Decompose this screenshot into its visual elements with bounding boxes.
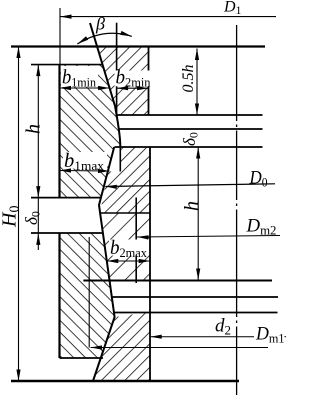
b2max right arrow (139, 259, 151, 263)
hub lower-middle block hatched area (100, 213, 150, 280)
Dm1 extension vertical line (88, 237, 90, 348)
0.5h top arrow (195, 49, 199, 61)
D1 extension line (59, 8, 61, 64)
d2 dimension line (150, 336, 254, 338)
bush bottom edge (60, 357, 104, 359)
hub bottom block hatched area (93, 312, 150, 381)
Dm1 arrow (91, 345, 103, 349)
b2min right arrow (137, 86, 149, 90)
beta arc left arrow (77, 36, 88, 44)
b2min left arrow (117, 86, 129, 90)
rim line 2 (112, 296, 278, 298)
h right dimension line (197, 147, 199, 280)
H0 dimension line (18, 47, 20, 382)
bush left edge upper (58, 65, 60, 198)
svg-text:β: β (95, 14, 105, 34)
slot line 1 (116, 114, 263, 116)
Dm1 dimension line (91, 347, 269, 349)
0.5h bottom arrow (195, 104, 199, 116)
Dm2 dimension line (137, 236, 280, 238)
b1min right arrow (98, 86, 110, 90)
bush top edge (31, 64, 103, 66)
H0 bottom arrow (16, 370, 20, 382)
b1min dimension line (60, 87, 110, 89)
bush left edge lower (58, 233, 60, 358)
hub right edge top block (148, 47, 150, 116)
D1 left arrow (60, 15, 72, 19)
h right bottom arrow (196, 269, 200, 281)
beta arc right arrow (120, 31, 132, 37)
cone flank vertical stub (119, 146, 121, 172)
0.5h dimension line (196, 49, 198, 116)
keyway notch white cutout in bush (60, 198, 103, 233)
svg-text:0.5h: 0.5h (180, 65, 197, 93)
top surface line (11, 45, 265, 47)
b1max dimension line (60, 170, 110, 173)
slot line 3 (115, 146, 263, 148)
hub top block hatched area (97, 47, 149, 115)
beta angle arc (77, 33, 132, 44)
h left top arrow (36, 65, 40, 77)
rim line 1 (83, 280, 272, 282)
h left bottom arrow (36, 186, 40, 198)
b2max left arrow (107, 259, 119, 263)
delta0 left dimension line (37, 198, 39, 250)
svg-text:h: h (22, 124, 44, 134)
cone flank line upper (bush right boundary) (90, 23, 120, 146)
b1max right arrow (98, 169, 110, 173)
h right top arrow (196, 147, 200, 159)
svg-text:h: h (181, 201, 203, 211)
b2min dimension line (117, 87, 149, 89)
hub middle block hatched area (100, 147, 150, 213)
b1max left arrow (60, 168, 72, 172)
Dm2 arrow (137, 235, 149, 239)
delta0 left bottom arrow (36, 233, 40, 245)
b2max dimension line (107, 260, 150, 262)
hub shoulder line (100, 212, 150, 214)
centerline dash-dot (236, 25, 238, 395)
h left dimension line (37, 65, 39, 198)
groove vertical reference line (116, 23, 118, 115)
bottom surface line (11, 380, 239, 383)
d2 arrow (150, 335, 162, 339)
cone flank line lower (zigzag boundary) (93, 147, 115, 381)
bush section hatched area (left tapered part) (60, 65, 121, 358)
notch bottom edge (31, 232, 103, 234)
D0 dimension line (105, 184, 275, 187)
H0 top arrow (16, 47, 20, 59)
hub groove wall vertical (135, 198, 137, 284)
D1 dimension line (60, 16, 276, 18)
hub right edge lower (149, 147, 151, 381)
text clear patches (61, 66, 98, 87)
D0 arrow (105, 185, 117, 189)
d2 line after Dm1 (285, 336, 287, 338)
notch top edge (31, 197, 101, 199)
b1min left arrow (60, 86, 72, 90)
rim line 3 (114, 312, 278, 314)
slot line 2 (119, 128, 263, 130)
